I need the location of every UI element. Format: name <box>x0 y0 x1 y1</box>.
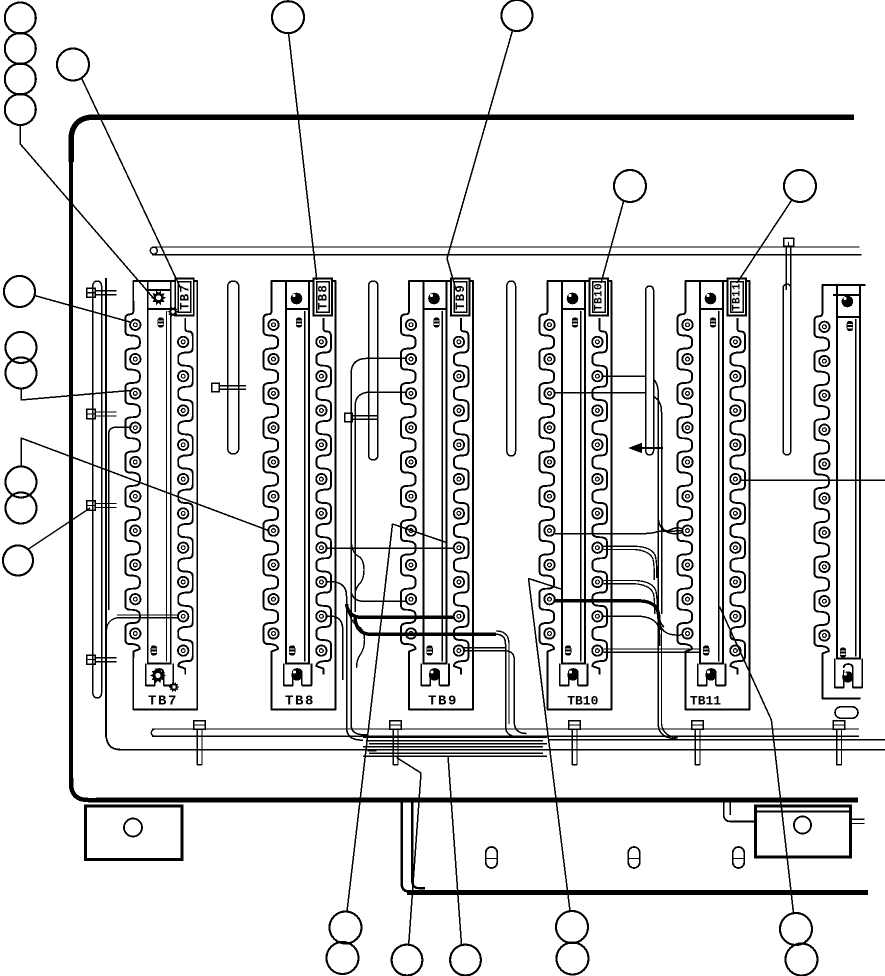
left terminal screws TB10 <box>544 320 554 639</box>
callout balloon C <box>272 1 304 33</box>
wire from TB11 right terminal 5 to TB12 <box>741 479 885 481</box>
strip bottom screw icon TB12 <box>840 647 846 657</box>
top mounting screw TB8 <box>291 293 303 305</box>
crossing wires at TB11 left terminal 7 <box>658 519 682 534</box>
right terminal screws TB10 <box>592 337 602 656</box>
strip top screw icon TB7 <box>158 317 164 327</box>
mounting foot TB8 <box>284 664 312 686</box>
right terminal screws TB8 <box>316 337 326 656</box>
bottom mounting screw with star washer TB7 <box>150 668 166 683</box>
chassis inner panel bottom-left corner <box>106 733 120 750</box>
terminal strip body TB11 <box>700 309 723 664</box>
small star washer TB7 <box>167 307 178 318</box>
strip neck TB10 <box>562 281 585 309</box>
slot between TB8 and TB9 <box>369 281 378 460</box>
arrow pointing left at slot between TB10 and TB11 <box>640 447 663 449</box>
leader line C to TB8 label box <box>289 33 317 280</box>
bottom slot under TB12 <box>835 707 858 718</box>
strip neck TB11 <box>700 281 723 309</box>
chassis outer left edge <box>69 155 73 782</box>
strip top screw icon TB10 <box>572 317 578 327</box>
bolt B9 on bottom rod <box>390 721 401 729</box>
wire pair from TB10 right terminal 6 into gap <box>603 546 657 578</box>
leader line O to TB11 strip <box>720 607 794 914</box>
bolt B3 on left slot <box>87 501 96 510</box>
right terminal flange TB7 <box>178 318 193 675</box>
leader line I to TB8 terminal 7 <box>21 438 269 531</box>
right foot bracket side tab <box>851 818 865 820</box>
right terminal flange TB11 <box>730 318 745 675</box>
terminal strip body TB8 <box>286 309 309 664</box>
right terminal flange TB9 <box>454 318 469 675</box>
strip top screw icon TB12 <box>847 321 853 331</box>
mounting foot TB12 <box>835 659 863 688</box>
callout balloon H1 <box>6 332 37 363</box>
strip top screw icon TB11 <box>710 317 716 327</box>
chassis outer bottom edge <box>96 798 858 803</box>
bottom mounting rod lower line <box>152 735 859 737</box>
leader line J to bolt B3 <box>29 508 91 549</box>
chassis outer bottom-left corner <box>71 778 100 800</box>
bottom mounting rod upper line <box>152 728 859 730</box>
bottom mounting rod left end cap <box>151 729 155 736</box>
lower support rail bottom edge <box>407 890 868 895</box>
mounting plate outline TB7 <box>133 281 197 710</box>
callout balloon A4 <box>5 94 36 125</box>
wires descending from TB10-TB11 gap to bottom rail <box>658 625 676 739</box>
left terminal flange TB7 <box>125 301 140 658</box>
leader line D to TB9 label box <box>447 31 513 291</box>
designation text TB9 <box>428 694 458 710</box>
mounting foot TB10 <box>560 664 588 686</box>
bolt B12 on bottom rod <box>833 721 844 729</box>
wire to TB9 left terminal 9 <box>351 590 406 601</box>
bottom mounting screw TB11 <box>705 669 716 680</box>
reference label box TB9 <box>451 279 470 316</box>
wire from TB10 right terminal 8 into gap <box>603 616 660 646</box>
left foot bracket hole <box>124 819 142 837</box>
bolt B1 on left slot <box>87 288 96 297</box>
left terminal screws TB9 <box>406 320 416 639</box>
callout balloon K2 <box>327 942 359 974</box>
top mounting rail upper line <box>152 246 860 248</box>
svg-text:TB11: TB11 <box>690 694 721 709</box>
left terminal flange TB10 <box>540 301 555 658</box>
terminal strip body TB10 <box>562 309 585 664</box>
svg-text:TB10: TB10 <box>567 694 598 709</box>
bolt B6 on slot between TB8 and TB9 <box>345 413 353 422</box>
terminal strip body TB7 <box>148 309 171 664</box>
top mounting screw TB12 <box>842 296 854 308</box>
left terminal flange TB9 <box>401 301 416 658</box>
callout balloon K1 <box>330 912 362 944</box>
reference label box TB7 <box>175 279 194 316</box>
heavy wire from TB10 left terminal 9 into gap <box>555 601 659 630</box>
wire weaving in TB8-TB9 gap <box>351 540 364 596</box>
cable bundle end dash <box>368 749 377 751</box>
leader line K to TB9 strip <box>347 524 447 912</box>
callout balloon B <box>57 49 89 81</box>
strip top screw icon TB8 <box>296 317 302 327</box>
wire from gap to TB11 left terminal 10 <box>658 612 682 635</box>
reference label box TB8 <box>314 279 333 316</box>
callout balloon N2 <box>557 943 589 975</box>
top mounting rail left end cap <box>150 247 157 254</box>
strip neck TB7 <box>148 281 171 309</box>
strip neck TB12 <box>837 285 860 317</box>
left terminal screws TB12 <box>819 322 829 641</box>
callout balloon A3 <box>5 64 36 95</box>
heavy wire to TB9 right terminal 9 <box>347 604 455 617</box>
wire pair from TB10 right terminal 7 into gap <box>603 580 657 612</box>
designation text TB8 <box>285 694 315 710</box>
strip neck TB9 <box>424 281 447 309</box>
bottom mounting screw TB12 <box>842 671 853 682</box>
bolt B10 on bottom rod <box>569 721 580 729</box>
wire from TB7 left terminal 4 hooking down <box>109 427 132 610</box>
right terminal screws TB7 <box>178 337 188 656</box>
cable bundle along bottom rail <box>363 736 547 738</box>
leader line M to cable bundle <box>448 756 462 945</box>
callout balloon I1 <box>6 467 37 498</box>
mounting plate outline TB8 <box>272 281 336 710</box>
strip bottom screw icon TB9 <box>426 645 432 655</box>
slot between TB10 and TB11 <box>646 286 654 455</box>
callout balloon O2 <box>786 944 818 976</box>
left terminal flange TB8 <box>264 301 279 658</box>
chassis inner panel left edge <box>105 278 107 737</box>
top mounting screw TB11 <box>705 293 717 305</box>
callout balloon J <box>3 546 33 576</box>
callout balloon A1 <box>5 3 36 34</box>
right foot bracket <box>756 806 851 857</box>
leader line N to TB10 strip <box>529 579 571 912</box>
leader line L to cable bundle <box>397 758 422 945</box>
svg-text:TB9: TB9 <box>454 284 468 310</box>
rail slots on lower support <box>486 847 498 868</box>
bolt B8 on bottom rod <box>194 721 205 729</box>
terminal strip body TB9 <box>424 309 447 664</box>
wire pair from TB7 right terminal 9 to panel edge <box>117 614 179 616</box>
right support channel step-down <box>724 802 756 822</box>
strip bottom screw icon TB11 <box>703 645 709 655</box>
support channel step-down <box>402 802 409 892</box>
right terminal flange TB10 <box>592 318 607 675</box>
leader line G to TB7 terminal 1 <box>35 296 131 323</box>
callout balloon F <box>784 170 816 202</box>
bottom mounting screw TB10 <box>567 669 578 680</box>
wire from TB10 right terminal 2 over slot <box>603 375 645 377</box>
washer plate top TB7 <box>148 289 171 291</box>
wire from TB10 left terminal 7 to TB11 left terminal 7 <box>555 531 682 534</box>
mounting plate outline TB11 <box>686 281 750 710</box>
designation text TB11 <box>690 694 721 709</box>
left terminal screws TB8 <box>268 320 278 639</box>
wire pair from TB10 right terminal 9 to TB11 strip <box>603 648 701 650</box>
left foot bracket <box>86 806 183 860</box>
wire crossing from TB8 right terminal 7 to TB9 right terminal 6 <box>327 547 455 549</box>
left terminal screws TB7 <box>130 320 140 639</box>
designation text TB7 <box>148 694 178 710</box>
svg-text:TB11: TB11 <box>732 283 744 311</box>
strip bottom screw icon TB7 <box>151 645 157 655</box>
callout balloon D <box>502 0 533 31</box>
bolt B4 on left slot <box>87 655 96 664</box>
callout balloon M <box>450 945 481 976</box>
top mounting rail lower line <box>152 254 862 256</box>
wire from TB9 left terminal 2 down gap <box>351 358 406 735</box>
wire from TB9 right terminal 10 looping down <box>464 651 527 734</box>
callout balloon O1 <box>780 913 812 945</box>
wire from TB8 right terminal 9 into gap bundle <box>327 616 343 680</box>
bottom mounting screw TB9 <box>429 669 440 680</box>
terminal strip body TB12 <box>837 317 860 659</box>
bottom rail middle line <box>548 739 885 741</box>
mounting foot TB11 <box>698 664 726 686</box>
left terminal flange TB12 <box>814 303 829 660</box>
bolt B11 on bottom rod <box>692 721 703 729</box>
left terminal flange TB11 <box>678 301 693 658</box>
leader line E to TB10 label box <box>601 201 624 283</box>
bolt B2 on left slot <box>87 409 96 418</box>
callout balloon H2 <box>6 358 37 389</box>
strip bottom screw icon TB8 <box>289 645 295 655</box>
top mounting screw TB9 <box>428 293 440 305</box>
callout balloon N1 <box>556 911 588 943</box>
mounting plate outline TB12 <box>822 285 865 303</box>
strip bottom screw icon TB10 <box>565 645 571 655</box>
reference label box TB12 (cut off) <box>833 285 861 295</box>
callout balloon E <box>614 170 646 202</box>
slot between TB11 and TB12 <box>783 284 791 455</box>
right terminal flange TB8 <box>316 318 331 675</box>
heavy wire to TB9 left terminal 10 and loop <box>355 618 496 634</box>
right terminal screws TB9 <box>454 337 464 656</box>
mounting foot TB7 <box>146 664 174 686</box>
wire from TB8 right terminal 8 into gap bundle <box>327 582 363 741</box>
svg-text:TB7: TB7 <box>148 694 178 710</box>
reference label box TB10 <box>590 279 609 316</box>
left vertical slot <box>93 281 102 698</box>
mounting plate bottom edge TB12 <box>822 660 860 699</box>
leader line F to TB11 label box <box>737 200 792 283</box>
bolt B5 on slot between TB7 and TB8 <box>212 383 220 392</box>
svg-text:TB8: TB8 <box>285 694 315 710</box>
reference label box TB11 <box>728 279 747 316</box>
top mounting screw TB10 <box>567 293 579 305</box>
mounting plate outline TB10 <box>548 281 612 710</box>
chassis inner panel bottom edge <box>119 749 885 751</box>
designation text TB10 <box>567 694 598 709</box>
callout balloon L <box>392 945 423 976</box>
svg-text:TB8: TB8 <box>317 284 331 310</box>
mounting foot TB9 <box>421 664 449 686</box>
svg-text:TB10: TB10 <box>594 283 606 311</box>
svg-text:TB9: TB9 <box>428 694 458 710</box>
slot between TB9 and TB10 <box>507 281 516 456</box>
wire from TB10 left terminal 3 over slot <box>555 392 645 394</box>
bolt B7 on top rail near TB11 <box>784 238 794 246</box>
leader line to TB7 top screw <box>20 125 152 297</box>
wire from TB9 left terminal 3 down gap <box>355 392 406 612</box>
left terminal screws TB11 <box>682 320 692 639</box>
top mounting screw with star washer TB7 <box>151 291 166 306</box>
strip neck TB8 <box>286 281 309 309</box>
right terminal screws TB11 <box>730 337 740 656</box>
callout balloon I2 <box>6 493 37 524</box>
mounting plate outline TB9 <box>409 281 473 710</box>
bottom mounting screw TB8 <box>291 669 302 680</box>
leader line B to TB7 label box <box>82 78 182 289</box>
callout balloon G <box>4 276 35 307</box>
right foot bracket hole <box>794 816 811 833</box>
strip top screw icon TB9 <box>433 317 439 327</box>
leader line H to TB7 terminal 3 <box>21 389 130 401</box>
small star washer bottom TB7 <box>169 682 180 692</box>
slot between TB7 and TB8 <box>228 281 239 454</box>
chassis outer top edge <box>71 117 854 162</box>
callout balloon A2 <box>5 33 36 64</box>
